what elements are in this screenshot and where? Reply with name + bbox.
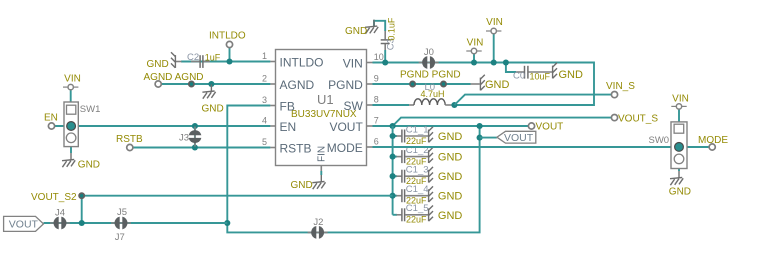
svg-text:J2: J2	[313, 217, 323, 228]
capacitor C0	[506, 63, 552, 79]
wire J4/J5 VOUT line	[44, 222, 228, 224]
svg-text:PGND: PGND	[328, 78, 363, 92]
node VIN upper junction	[491, 59, 497, 65]
jumper J4	[50, 217, 70, 230]
jumper J2	[308, 226, 328, 239]
U1 pin 6 stub	[327, 137, 379, 156]
svg-text:INTLDO: INTLDO	[209, 30, 246, 41]
U1 pin 2 stub	[262, 74, 315, 93]
wire VOUT_S branch	[393, 118, 612, 126]
wire VOUT_S2 line	[82, 196, 393, 223]
capacitor C1_2	[393, 150, 428, 163]
terminal EN	[48, 123, 54, 129]
svg-text:AGND: AGND	[280, 78, 315, 92]
svg-text:GND: GND	[438, 152, 463, 164]
svg-text:VOUT: VOUT	[504, 132, 534, 144]
capacitor C1_1	[393, 130, 428, 143]
U1 pin 7 stub	[329, 116, 378, 135]
svg-text:GND: GND	[147, 59, 169, 70]
svg-text:VOUT: VOUT	[329, 120, 363, 134]
svg-text:22uF: 22uF	[406, 215, 427, 225]
node VIN lower junction	[471, 59, 477, 65]
wire pin10 VIN net	[373, 63, 595, 106]
terminal VOUT	[528, 123, 534, 129]
ground C0	[553, 63, 557, 79]
IC U1 body	[276, 50, 367, 166]
ground C1_4	[429, 186, 433, 202]
node inductor/SW junction	[451, 102, 457, 108]
svg-text:C0: C0	[513, 71, 525, 82]
svg-text:VIN: VIN	[343, 57, 363, 71]
wire VIN_S branch	[454, 95, 611, 105]
svg-text:RSTB: RSTB	[116, 134, 143, 145]
svg-text:GND: GND	[438, 171, 463, 183]
wire pin4 EN net	[55, 125, 271, 127]
svg-text:EN: EN	[280, 120, 297, 134]
jumper J3	[189, 127, 202, 147]
U1 pin 9 stub	[328, 74, 379, 93]
terminal VOUT_S	[611, 115, 617, 121]
svg-text:GND: GND	[438, 131, 463, 143]
terminal AGND 1	[155, 81, 161, 87]
wire cap bank rail	[392, 126, 394, 215]
wire J3 vertical	[194, 126, 196, 148]
svg-text:U1: U1	[317, 92, 334, 107]
svg-text:C1_4: C1_4	[406, 184, 429, 195]
switch SW0	[671, 109, 687, 171]
svg-text:GND: GND	[202, 103, 224, 114]
terminal INTLDO	[226, 41, 232, 47]
svg-text:EN: EN	[44, 112, 58, 123]
svg-text:VOUT: VOUT	[9, 219, 39, 231]
svg-text:7: 7	[374, 116, 379, 126]
svg-text:J7: J7	[115, 232, 125, 243]
svg-text:SW1: SW1	[80, 104, 101, 115]
ground C1_2	[429, 147, 433, 163]
terminal VOUT_S2	[79, 193, 84, 198]
svg-text:VIN: VIN	[64, 73, 81, 84]
ground C1_3	[429, 167, 433, 183]
node FB / J5 line junction	[224, 220, 230, 226]
jumper J5	[111, 217, 131, 230]
capacitor C1_5	[393, 208, 428, 221]
flag VOUT (output, points right)	[4, 216, 44, 231]
svg-text:4.7uH: 4.7uH	[421, 89, 445, 99]
svg-text:10uF: 10uF	[530, 71, 551, 81]
svg-text:GND: GND	[485, 79, 510, 91]
node pin7/flag-column junction	[477, 123, 483, 129]
ground under SW0	[670, 171, 683, 185]
terminal AGND 2	[189, 81, 194, 86]
capacitor C2	[176, 55, 210, 68]
node C0 junction	[503, 59, 509, 65]
U1 pin FIN	[317, 146, 328, 175]
U1 pin 8 stub	[343, 95, 378, 114]
svg-text:C2: C2	[187, 52, 199, 63]
svg-text:10: 10	[374, 52, 384, 62]
svg-text:MODE: MODE	[327, 141, 363, 155]
svg-text:VIN: VIN	[672, 94, 689, 105]
ground C3	[365, 20, 378, 34]
power VIN above SW1	[63, 84, 78, 89]
svg-text:VOUT_S: VOUT_S	[618, 114, 658, 125]
U1 pin 3 stub	[262, 95, 295, 114]
svg-text:VOUT: VOUT	[536, 122, 564, 133]
svg-text:PGND PGND: PGND PGND	[400, 69, 461, 80]
ground under U1 FIN	[312, 175, 325, 189]
svg-text:4: 4	[262, 116, 267, 126]
wire pin1 INTLDO net	[181, 61, 270, 63]
switch SW1	[64, 90, 78, 153]
ground AGND branch	[202, 85, 215, 99]
U1 pin 1 stub	[262, 51, 324, 70]
node J3 top	[192, 123, 198, 129]
power VIN (lower)	[473, 54, 475, 63]
node VOUT flag junction	[477, 135, 483, 141]
svg-text:1uF: 1uF	[205, 53, 221, 63]
svg-text:GND: GND	[291, 180, 313, 191]
wire pin5 RSTB net	[133, 147, 270, 149]
svg-text:VIN: VIN	[486, 17, 503, 28]
svg-text:GND: GND	[345, 26, 367, 37]
svg-text:VOUT_S2: VOUT_S2	[31, 192, 77, 203]
wire pin9 PGND net	[373, 83, 480, 85]
ground C2 GND (sideways left)	[171, 52, 175, 68]
svg-text:GND: GND	[669, 187, 691, 198]
svg-text:VIN: VIN	[467, 38, 484, 49]
terminal RSTB	[127, 144, 133, 150]
svg-text:J0: J0	[424, 47, 434, 58]
svg-text:RSTB: RSTB	[280, 142, 312, 156]
flag VOUT (input, points left)	[497, 131, 536, 144]
svg-text:GND: GND	[438, 210, 463, 222]
U1 pin 5 stub	[262, 137, 312, 156]
wire pin6 MODE net	[373, 146, 709, 148]
capacitor C1_3	[393, 170, 428, 183]
capacitor C1_4	[393, 189, 428, 202]
svg-text:5: 5	[262, 137, 267, 147]
U1 pin 4 stub	[262, 116, 296, 135]
svg-text:2: 2	[262, 74, 267, 84]
capacitor C3	[374, 21, 390, 63]
node pin1/INTLDO junction	[226, 58, 232, 64]
svg-text:0.1uF: 0.1uF	[387, 17, 397, 41]
svg-text:AGND AGND: AGND AGND	[144, 72, 204, 83]
svg-text:FB: FB	[280, 100, 295, 114]
power VIN above SW0	[671, 104, 686, 109]
svg-text:GND: GND	[438, 191, 463, 203]
ground pin9	[480, 75, 484, 91]
wire pin3 FB net (down to J2 line and up right rail)	[227, 106, 479, 233]
wire INTLDO terminal drop	[229, 48, 231, 62]
node C1_1 rail junction	[390, 133, 396, 139]
terminal PGND 2	[441, 81, 446, 86]
svg-text:C1_3: C1_3	[406, 165, 429, 176]
svg-text:C1_5: C1_5	[406, 203, 429, 214]
ground C1_5	[429, 206, 433, 222]
svg-text:INTLDO: INTLDO	[280, 56, 324, 70]
node C3 junction	[382, 59, 388, 65]
jumper J0	[419, 56, 439, 69]
node J3 bottom	[192, 144, 198, 150]
node C1_4 rail junction	[390, 193, 396, 199]
svg-text:J4: J4	[55, 208, 65, 219]
node AGND ground junction	[208, 81, 214, 87]
svg-text:GND: GND	[78, 160, 100, 171]
wire to VOUT input flag	[480, 137, 497, 139]
svg-text:VIN_S: VIN_S	[606, 81, 635, 92]
svg-text:6: 6	[374, 137, 379, 147]
node C1_3 rail junction	[390, 173, 396, 179]
wire pin2 AGND net	[161, 83, 270, 85]
svg-text:8: 8	[374, 95, 379, 105]
terminal PGND 1	[410, 81, 415, 86]
svg-text:MODE: MODE	[698, 135, 728, 146]
node C1_2 rail junction	[390, 154, 396, 160]
power VIN (upper)	[493, 34, 495, 63]
svg-text:SW: SW	[343, 99, 363, 113]
svg-text:SW0: SW0	[649, 135, 670, 146]
ground under SW1	[62, 153, 75, 167]
wire pin7 VOUT net	[373, 125, 529, 127]
svg-text:J5: J5	[117, 207, 127, 218]
svg-text:9: 9	[374, 74, 379, 84]
terminal MODE	[709, 144, 715, 150]
svg-text:C1_1: C1_1	[406, 124, 429, 135]
inductor L0	[373, 99, 455, 105]
terminal VIN_S	[611, 92, 617, 98]
svg-text:J3: J3	[179, 132, 189, 143]
U1 pin 10 stub	[343, 52, 384, 71]
svg-text:GND: GND	[559, 69, 584, 81]
svg-text:1: 1	[262, 51, 267, 61]
ground C1_1	[429, 127, 433, 143]
node VOUT_S2 branch junction	[79, 220, 85, 226]
svg-text:3: 3	[262, 95, 267, 105]
node pin7/rail junction	[390, 123, 396, 129]
svg-text:FIN: FIN	[317, 146, 328, 162]
